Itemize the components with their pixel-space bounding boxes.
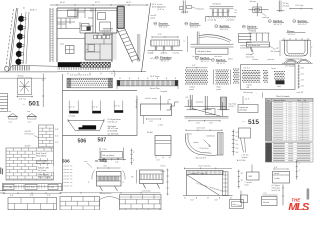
svg-text:– x’xx xx · nn: – x’xx xx · nn (62, 172, 72, 174)
svg-text:2x2 lattice: 2x2 lattice (227, 19, 235, 22)
svg-text:8'-0": 8'-0" (210, 123, 214, 125)
svg-text:Botanical Name: Botanical Name (274, 99, 286, 102)
schedule table upper block rows (266, 102, 272, 104)
svg-text:LTP-Panel: LTP-Panel (25, 134, 34, 136)
svg-text:3/4"=1'-0": 3/4"=1'-0" (190, 27, 199, 29)
svg-text:plaster: plaster (194, 141, 200, 144)
svg-text:2'-6": 2'-6" (301, 80, 305, 82)
svg-text:1'-6" min clr: 1'-6" min clr (108, 121, 118, 123)
svg-text:2'-0": 2'-0" (157, 159, 161, 161)
br small detail left (240, 191, 242, 203)
tree planting plan detail (18, 78, 32, 95)
schedule table lower block frame (266, 143, 314, 162)
svg-text:Flush Mortar: Flush Mortar (36, 155, 47, 158)
svg-text:cap: cap (8, 111, 11, 113)
svg-text:plan (typ): plan (typ) (240, 109, 247, 112)
svg-text:rail ht: rail ht (161, 170, 166, 173)
svg-text:base conn: base conn (246, 56, 254, 58)
svg-text:3/4"=1'-0": 3/4"=1'-0" (201, 61, 210, 63)
svg-text:Brick Cap w/: Brick Cap w/ (36, 152, 47, 155)
section label E (268, 20, 271, 23)
bottom brick arcade right (120, 195, 162, 211)
svg-text:eq: eq (235, 12, 237, 14)
svg-text:A-4 LP B-8: A-4 LP B-8 (237, 159, 246, 162)
svg-text:lattice: lattice (228, 58, 233, 61)
additional interior walls (57, 11, 117, 61)
fence plan end ticks (116, 86, 118, 89)
section label mid1 (195, 57, 198, 60)
ramp base line (183, 195, 233, 197)
planter U section outline (68, 120, 104, 130)
svg-text:7'-0": 7'-0" (227, 10, 231, 12)
section label B (185, 22, 188, 25)
panel E lattice column (263, 70, 264, 71)
curb return arc (4, 66, 9, 71)
upper hatched band (102, 29, 104, 35)
fence curved leader (113, 70, 115, 77)
street tree 6 (15, 59, 21, 65)
svg-text:Section: Section (273, 19, 283, 23)
brick pier elevation (39, 125, 54, 148)
right scale column (298, 65, 300, 89)
svg-text:see struct: see struct (215, 55, 223, 58)
street tree 1 (18, 16, 24, 22)
svg-text:-2.0: -2.0 (235, 148, 238, 150)
svg-text:cap: cap (27, 111, 30, 113)
schedule table lower block rows (266, 143, 272, 145)
svg-text:dn: dn (23, 8, 25, 10)
bottom brick arcade left (60, 197, 100, 211)
svg-text:fin grade: fin grade (161, 90, 168, 93)
svg-text:– x’xx xx · nn: – x’xx xx · nn (62, 169, 72, 171)
svg-text:4x8: 4x8 (247, 87, 250, 89)
lattice panel B (215, 69, 216, 70)
gray bar near logo (307, 189, 310, 200)
ramp cheek wall (223, 172, 229, 196)
detail panel border right (241, 65, 296, 90)
riser detail below 515 (239, 128, 251, 138)
svg-text:Qty: Qty (304, 99, 307, 102)
planter black steel bar (82, 125, 96, 129)
building west wall with hatch (49, 8, 51, 62)
svg-text:4'-0": 4'-0" (301, 74, 305, 76)
svg-text:2x6 cap (slope): 2x6 cap (slope) (102, 155, 114, 157)
svg-text:4'-0": 4'-0" (192, 65, 196, 67)
bench elevation detail (152, 36, 179, 38)
boundary hatch strip (137, 34, 139, 62)
svg-text:3'-0": 3'-0" (274, 167, 278, 169)
svg-text:nn: nn (86, 49, 88, 51)
svg-text:3'-0" clr: 3'-0" clr (92, 106, 98, 108)
svg-text:3x3 cap: 3x3 cap (250, 1, 256, 3)
panel F gate with dark base (274, 71, 275, 72)
svg-text:6'-0": 6'-0" (191, 199, 195, 201)
north dimension line (50, 4, 149, 6)
lattice panel B arrows (213, 70, 215, 85)
bench post marks (103, 158, 105, 160)
svg-text:507: 507 (98, 137, 107, 143)
section label bench (155, 56, 158, 59)
svg-text:═ 508: ═ 508 (94, 158, 107, 163)
svg-text:3/4" chamfer: 3/4" chamfer (271, 50, 281, 53)
svg-text:– x’xx xx · nn: – x’xx xx · nn (62, 185, 72, 187)
svg-text:3/4"=1'-0": 3/4"=1'-0" (161, 61, 170, 63)
svg-text:3'-0" clr: 3'-0" clr (69, 106, 75, 108)
svg-text:Section: Section (216, 58, 226, 62)
svg-text:bond beam: bond beam (207, 136, 216, 138)
paving section detail 508 (97, 167, 121, 169)
svg-text:landing 4'-0" slope 2%: landing 4'-0" slope 2% (191, 173, 208, 175)
svg-text:Curb Detail: Curb Detail (142, 190, 151, 193)
svg-text:0.0: 0.0 (235, 140, 237, 142)
svg-text:2" clr (typ): 2" clr (typ) (4, 186, 12, 189)
svg-text:conc ftg: conc ftg (173, 51, 179, 54)
svg-text:Ma 8x8: Ma 8x8 (147, 132, 153, 134)
svg-text:6'-0" max: 6'-0" max (296, 5, 304, 7)
svg-text:Size: Size (298, 100, 301, 102)
svg-text:– x’xx xx · nn: – x’xx xx · nn (62, 166, 72, 168)
ramp plan detail H (187, 100, 189, 107)
svg-text:+1.0: +1.0 (235, 136, 238, 138)
tr vertical post detail (278, 1, 280, 13)
svg-text:guard: guard (151, 17, 156, 20)
svg-text:2'-8": 2'-8" (47, 195, 51, 197)
tr dimension line (290, 8, 313, 10)
svg-text:3'-4": 3'-4" (55, 136, 59, 138)
gate black bar 1 (69, 111, 78, 114)
ramp body (186, 175, 188, 196)
svg-text:self-closing: self-closing (272, 187, 280, 189)
svg-text:2x2 @ 4": 2x2 @ 4" (150, 58, 157, 60)
svg-text:1x2 trim: 1x2 trim (164, 58, 171, 61)
svg-text:Grout Solid Cell: Grout Solid Cell (36, 162, 50, 165)
svg-text:506: 506 (62, 158, 70, 163)
svg-text:eq eq eq: eq eq eq (250, 30, 257, 32)
svg-text:1/2"=1'-0": 1/2"=1'-0" (288, 34, 296, 36)
small box detail bottom center (230, 200, 244, 209)
svg-text:3" cap: 3" cap (237, 205, 242, 207)
east boundary line (142, 3, 151, 72)
svg-text:no. 8: no. 8 (245, 99, 249, 101)
section label F (293, 20, 296, 23)
svg-text:el 101.5: el 101.5 (229, 106, 235, 108)
svg-text:1/4": 1/4" (1, 109, 4, 111)
svg-text:MLS: MLS (288, 202, 310, 210)
svg-text:**.*: **.* (242, 122, 245, 124)
wall annotation box upper (36, 152, 54, 159)
svg-text:4x4 post: 4x4 post (161, 51, 168, 54)
svg-text:@ 4" oc: @ 4" oc (158, 9, 165, 11)
svg-text:1'-6": 1'-6" (115, 161, 119, 163)
svg-text:Section: Section (190, 22, 200, 26)
brick wall elevation wide (6, 148, 54, 180)
planter tub section (282, 39, 311, 41)
arcade dimension ticks (61, 192, 161, 194)
svg-text:2'-8": 2'-8" (55, 129, 59, 131)
left margin marks (0, 168, 2, 175)
svg-text:6'-0": 6'-0" (215, 199, 219, 201)
svg-text:3/4"=1'-0": 3/4"=1'-0" (298, 24, 307, 26)
svg-text:18": 18" (131, 177, 134, 179)
courtyard table (66, 46, 75, 54)
pool section detail J (186, 129, 223, 131)
svg-text:3'-0": 3'-0" (104, 165, 108, 167)
svg-text:4x4 post: 4x4 post (197, 8, 205, 11)
gate bay ticks (68, 101, 70, 111)
svg-text:Struct Dwg Typ: Struct Dwg Typ (38, 176, 51, 179)
svg-text:1'-4": 1'-4" (9, 121, 13, 123)
bottom-left brick section (8, 198, 57, 211)
svg-text:1'-10": 1'-10" (102, 149, 107, 151)
gate black bar 3 (114, 110, 123, 113)
gate black bar 2 (92, 111, 101, 114)
svg-text:6'-8": 6'-8" (301, 68, 305, 70)
svg-text:2x blocking: 2x blocking (240, 47, 249, 49)
paving tick fringe under bars (57, 67, 59, 70)
arched trellis detail (284, 59, 298, 63)
fence ground line (63, 90, 138, 92)
svg-text:2x8 beam: 2x8 beam (213, 4, 222, 6)
svg-text:8'-0": 8'-0" (197, 123, 201, 125)
ramp right dim column (238, 170, 240, 189)
svg-text:cap rail: cap rail (274, 173, 280, 175)
svg-text:6x6 post typ: 6x6 post typ (244, 91, 253, 94)
svg-text:31'-2": 31'-2" (95, 2, 100, 4)
svg-text:Gate: Gate (277, 85, 281, 88)
svg-text:w/ 3 hinges: w/ 3 hinges (272, 185, 280, 187)
stair shaft (117, 6, 124, 28)
street tree 3 (17, 33, 23, 39)
svg-text:1'-4": 1'-4" (28, 121, 32, 123)
svg-text:1'-2": 1'-2" (264, 193, 268, 195)
svg-text:3'-0" clr: 3'-0" clr (114, 105, 120, 107)
svg-text:12'-6" pool: 12'-6" pool (197, 127, 206, 129)
svg-text:(E) 8" st: (E) 8" st (30, 9, 37, 12)
checkered paving strip (80, 62, 82, 64)
svg-text:arch top gate: arch top gate (285, 65, 295, 68)
site plan west boundary line (9, 8, 17, 71)
match line vertical (62, 74, 64, 191)
svg-text:frame: frame (272, 67, 276, 70)
br detail 502 box (251, 165, 253, 173)
svg-text:3'-0": 3'-0" (150, 121, 154, 123)
mid dim stack between details (131, 149, 133, 166)
post fragment 3 hatched (220, 97, 222, 109)
interior fixtures (88, 45, 95, 52)
svg-text:-3.0: -3.0 (235, 152, 238, 154)
br vertical post w ticks (296, 160, 298, 180)
post fragment 2 (204, 96, 206, 110)
svg-text:24'-6": 24'-6" (60, 2, 65, 4)
brick arch opening (100, 197, 120, 207)
svg-text:1 1/2" dia: 1 1/2" dia (242, 155, 249, 157)
kitchen counter squares (94, 35, 97, 39)
svg-text:dn: dn (169, 99, 171, 101)
svg-text:#3 @ 12 ew: #3 @ 12 ew (200, 148, 210, 150)
svg-text:3/4"=1'-0": 3/4"=1'-0" (159, 27, 168, 29)
svg-text:5'-0" sq: 5'-0" sq (19, 99, 25, 101)
big room roof fill (85, 33, 116, 59)
footing dimension line (3, 192, 61, 194)
svg-text:3/4"=1'-0": 3/4"=1'-0" (274, 24, 283, 26)
svg-text:1'-0": 1'-0" (55, 142, 59, 144)
svg-text:0'-6": 0'-6" (301, 86, 305, 88)
post fragment 1 (189, 95, 191, 110)
trellis canopy detail (196, 32, 198, 45)
svg-text:at threshold: at threshold (108, 130, 117, 133)
svg-text:3'-6": 3'-6" (10, 195, 14, 197)
svg-text:(+2d): (+2d) (159, 125, 163, 127)
svg-text:Planter: Planter (287, 30, 295, 33)
svg-text:3/4"=1'-0": 3/4"=1'-0" (217, 63, 226, 65)
more interior partitions (57, 8, 98, 39)
fence plan strip (117, 80, 178, 86)
svg-text:thru-bolt: thru-bolt (283, 4, 290, 7)
svg-text:2x6 cap: 2x6 cap (148, 52, 154, 54)
street tree 4 (16, 42, 22, 48)
svg-text:Section: Section (159, 22, 169, 26)
lattice column C (233, 68, 234, 69)
svg-text:post cap: post cap (268, 58, 274, 61)
svg-text:515: 515 (248, 119, 259, 126)
svg-text:4" slab: 4" slab (49, 187, 54, 189)
svg-text:guard rail: guard rail (196, 101, 204, 104)
paving section detail second (140, 170, 164, 184)
gate detail panel border (63, 96, 138, 136)
svg-text:1x1 @ 2": 1x1 @ 2" (244, 68, 251, 70)
svg-text:6 gates typ: 6 gates typ (135, 99, 138, 108)
pilaster cap detail B (28, 114, 37, 117)
svg-text:see 5/LP-502: see 5/LP-502 (108, 134, 119, 136)
panel D lattice (242, 70, 243, 71)
street tree 2 (18, 25, 24, 31)
section label C pergola (215, 25, 218, 28)
svg-text:panel: panel (190, 89, 195, 91)
tr cross assembly detail (249, 9, 269, 11)
corner bracket mark (206, 17, 209, 22)
street line (0, 77, 46, 79)
lattice fence elevation bar (67, 78, 113, 88)
svg-text:deep end 6'-6": deep end 6'-6" (196, 158, 207, 160)
svg-text:scale 1/4": scale 1/4" (297, 92, 305, 94)
crosswalk stripes (12, 66, 14, 71)
bench detail under 507 (99, 148, 101, 160)
svg-text:4'-0" 6'-0" 4'-0": 4'-0" 6'-0" 4'-0" 5'-6" 4'-0" (70, 75, 91, 77)
ramp top landing bar (187, 170, 224, 174)
svg-text:6x6 post w/ base: 6x6 post w/ base (198, 50, 212, 53)
leader near arcade (87, 163, 92, 168)
site plan property boundary (dashed) (6, 9, 14, 70)
svg-text:4" conc ftg: 4" conc ftg (208, 19, 216, 22)
section label D right (242, 25, 245, 28)
svg-text:24'-8" fence: 24'-8" fence (150, 76, 159, 78)
schedule table header (266, 98, 314, 101)
br vertical line right (282, 185, 284, 206)
stair fragment below mid (160, 96, 162, 111)
exterior stair steps (118, 28, 140, 63)
svg-text:Section: Section (200, 56, 210, 60)
svg-text:5'-0": 5'-0" (158, 34, 162, 36)
svg-text:501: 501 (29, 101, 40, 108)
svg-text:3'-6": 3'-6" (30, 195, 34, 197)
svg-text:– x’xx xx · nn: – x’xx xx · nn (62, 179, 72, 181)
footing plan band (3, 184, 62, 191)
svg-text:Paving Section: Paving Section (100, 192, 112, 195)
detail box G (141, 104, 172, 116)
mark box above 515 (238, 105, 258, 113)
fence plan tick row (119, 78, 121, 80)
street tree 5 (16, 51, 22, 57)
beam and posts detail (249, 33, 251, 41)
svg-text:– x’xx xx · nn: – x’xx xx · nn (62, 175, 72, 177)
svg-text:1x4 trim: 1x4 trim (252, 58, 259, 61)
wall annotation box lower (38, 166, 54, 172)
svg-text:panel: panel (217, 89, 222, 91)
svg-text:18": 18" (276, 48, 279, 50)
right wall section stack (239, 33, 252, 35)
svg-text:506: 506 (78, 138, 87, 144)
svg-text:—: — (23, 103, 26, 106)
svg-text:-1.0: -1.0 (235, 144, 238, 146)
svg-text:4x12 beam cont: 4x12 beam cont (248, 44, 261, 47)
driveway black paving bar (58, 62, 80, 67)
footing band hatch ticks (15, 185, 17, 189)
svg-text:24" box: 24" box (18, 76, 24, 78)
pilaster cap detail A (9, 114, 18, 117)
svg-text:– x’xx xx · nn: – x’xx xx · nn (62, 182, 72, 184)
svg-text:w/ #4 vert: w/ #4 vert (38, 169, 47, 172)
svg-text:Fence Plan: Fence Plan (150, 88, 160, 90)
ramp top dimension (184, 167, 232, 169)
vertical reference line (42, 74, 44, 108)
svg-text:tile line: tile line (187, 132, 192, 135)
svg-text:LP-5011: LP-5011 (69, 116, 76, 118)
gate post section detail (182, 1, 184, 14)
svg-text:+2.0: +2.0 (235, 132, 238, 134)
svg-text:Plant Schedule: Plant Schedule (276, 95, 290, 98)
svg-text:#4 @ 16 oc: #4 @ 16 oc (26, 187, 35, 189)
section label canopy (211, 58, 214, 61)
lattice panel A (185, 69, 186, 70)
tree row line (18, 13, 22, 65)
svg-text:24'-0" ramp run: 24'-0" ramp run (199, 165, 211, 168)
lattice panel A dimension (186, 67, 208, 69)
svg-text:8’ max: 8’ max (161, 166, 166, 168)
svg-text:weld typ: weld typ (263, 16, 270, 19)
interior walls upper rooms (57, 8, 96, 39)
svg-text:Section: Section (220, 24, 230, 28)
svg-text:3/4"=1'-0": 3/4"=1'-0" (220, 29, 229, 31)
parkway strip lines (23, 12, 26, 64)
building outline (57, 8, 117, 62)
level scale column K (232, 130, 234, 156)
svg-text:2x2: 2x2 (186, 97, 189, 99)
room closet boxes (68, 10, 78, 17)
svg-text:18'-4": 18'-4" (126, 2, 131, 4)
street curb lines (12, 65, 58, 66)
left edge elevation fragment (0, 93, 8, 95)
section label A (154, 22, 157, 25)
svg-text:Section: Section (247, 25, 257, 29)
detail box I (155, 136, 171, 156)
schedule table upper block frame (266, 98, 314, 141)
svg-text:Section: Section (298, 19, 308, 23)
svg-text:wd 8x1 · w/cap: wd 8x1 · w/cap (145, 98, 157, 100)
